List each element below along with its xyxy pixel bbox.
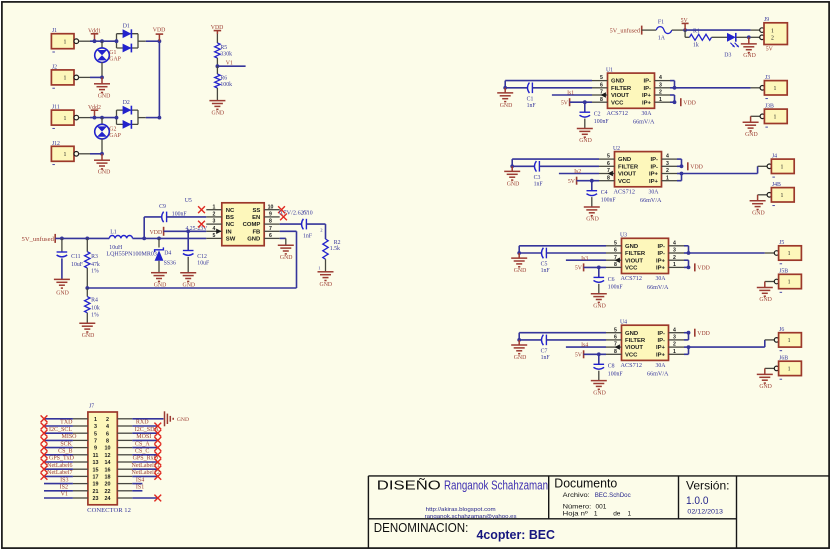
svg-text:7: 7	[269, 226, 272, 232]
svg-text:GND: GND	[212, 110, 225, 116]
svg-text:4: 4	[673, 327, 676, 333]
svg-text:J2: J2	[52, 64, 57, 70]
svg-text:U2: U2	[613, 146, 620, 152]
svg-text:1: 1	[788, 280, 791, 286]
svg-text:VDD: VDD	[153, 28, 166, 34]
svg-text:IP-: IP-	[657, 244, 665, 250]
svg-text:GND: GND	[625, 244, 638, 250]
svg-text:2: 2	[673, 255, 676, 261]
svg-text:1: 1	[64, 76, 67, 82]
svg-text:COMP: COMP	[243, 222, 261, 228]
svg-text:C11: C11	[71, 254, 81, 260]
svg-text:24: 24	[105, 496, 111, 502]
svg-text:1: 1	[673, 349, 676, 355]
svg-text:U3: U3	[620, 233, 627, 239]
svg-text:30A: 30A	[649, 189, 660, 195]
svg-text:R5: R5	[220, 45, 227, 51]
svg-text:4: 4	[673, 240, 676, 246]
svg-text:I2C_SCL: I2C_SCL	[49, 427, 72, 433]
svg-text:47k: 47k	[91, 262, 100, 268]
svg-text:18: 18	[105, 475, 111, 481]
svg-text:9: 9	[269, 212, 272, 218]
svg-text:VCC: VCC	[625, 352, 638, 358]
svg-text:10uF: 10uF	[71, 262, 84, 268]
svg-text:GND: GND	[752, 211, 765, 217]
svg-text:GPS_TxD: GPS_TxD	[49, 456, 75, 462]
svg-text:NetLabel12: NetLabel12	[132, 470, 160, 476]
svg-text:EN: EN	[252, 215, 260, 221]
svg-text:GND: GND	[579, 138, 592, 144]
svg-text:6: 6	[614, 335, 617, 341]
svg-text:IP-: IP-	[657, 251, 665, 257]
svg-text:VDD: VDD	[150, 230, 163, 236]
svg-text:FILTER: FILTER	[625, 338, 646, 344]
svg-text:1A: 1A	[658, 36, 666, 42]
svg-text:IP+: IP+	[656, 345, 666, 351]
svg-text:D4: D4	[164, 251, 171, 257]
svg-text:GND: GND	[586, 217, 599, 223]
svg-text:GND: GND	[759, 297, 772, 303]
svg-text:CS_C: CS_C	[135, 449, 149, 455]
svg-text:5: 5	[213, 233, 216, 239]
svg-text:MOSI: MOSI	[136, 434, 151, 440]
svg-text:5: 5	[607, 154, 610, 160]
svg-text:11: 11	[93, 453, 99, 459]
svg-text:8: 8	[269, 219, 272, 225]
svg-text:G2: G2	[109, 127, 116, 133]
svg-text:100nF: 100nF	[601, 198, 617, 204]
svg-text:ACS712: ACS712	[607, 111, 629, 117]
svg-text:GND: GND	[593, 303, 606, 309]
svg-text:1: 1	[771, 28, 774, 34]
svg-text:10: 10	[105, 446, 111, 452]
svg-text:C1: C1	[527, 97, 534, 103]
svg-text:Is3: Is3	[581, 256, 588, 262]
svg-text:8: 8	[600, 97, 603, 103]
svg-text:Número:: Número:	[563, 503, 592, 510]
svg-text:J6: J6	[779, 327, 784, 333]
svg-text:VDD: VDD	[697, 331, 710, 337]
svg-text:GND: GND	[759, 384, 772, 390]
svg-text:100nF: 100nF	[172, 212, 188, 218]
svg-text:V1: V1	[226, 61, 233, 67]
svg-text:7: 7	[94, 439, 97, 445]
svg-text:IP+: IP+	[656, 352, 666, 358]
svg-text:100k: 100k	[220, 82, 232, 88]
svg-text:U5: U5	[185, 198, 192, 204]
svg-text:5: 5	[614, 240, 617, 246]
svg-text:Hoja nº: Hoja nº	[563, 511, 589, 518]
svg-text:SCK: SCK	[60, 441, 72, 447]
svg-text:1nF: 1nF	[541, 268, 551, 274]
svg-text:GND: GND	[625, 331, 638, 337]
svg-text:10: 10	[268, 204, 274, 210]
svg-text:C5: C5	[541, 262, 548, 268]
svg-text:Archivo:: Archivo:	[563, 492, 590, 499]
svg-text:10uH: 10uH	[109, 245, 123, 251]
svg-text:VCC: VCC	[618, 179, 631, 185]
svg-text:17: 17	[93, 475, 99, 481]
svg-text:J1: J1	[52, 28, 57, 34]
svg-text:66mV/A: 66mV/A	[633, 120, 655, 126]
svg-text:4: 4	[213, 226, 216, 232]
svg-text:FILTER: FILTER	[618, 164, 639, 170]
svg-text:GND: GND	[500, 103, 513, 109]
svg-text:GND: GND	[247, 237, 260, 243]
svg-text:C9: C9	[159, 204, 166, 210]
svg-text:J12: J12	[52, 141, 60, 147]
svg-text:1%: 1%	[91, 269, 99, 275]
svg-text:CS_A: CS_A	[135, 441, 150, 447]
svg-text:IS3: IS3	[60, 477, 68, 483]
svg-text:NetLabel7: NetLabel7	[47, 470, 72, 476]
svg-text:6: 6	[614, 248, 617, 254]
svg-text:5V: 5V	[561, 101, 569, 107]
svg-text:J7: J7	[89, 404, 94, 410]
svg-text:TXD: TXD	[60, 420, 73, 426]
svg-text:NC: NC	[226, 222, 235, 228]
svg-text:DISEÑO: DISEÑO	[377, 477, 441, 492]
svg-text:CONECTOR 12: CONECTOR 12	[87, 508, 131, 514]
svg-text:IP-: IP-	[657, 331, 665, 337]
svg-text:CS_B: CS_B	[58, 449, 72, 455]
svg-text:1: 1	[666, 175, 669, 181]
svg-text:1: 1	[594, 511, 598, 518]
svg-text:1%: 1%	[91, 313, 99, 319]
svg-text:100nF: 100nF	[608, 371, 624, 377]
svg-text:IP+: IP+	[656, 266, 666, 272]
svg-text:02/12/2013: 02/12/2013	[687, 509, 723, 516]
svg-text:Is4: Is4	[581, 343, 588, 349]
svg-text:15: 15	[93, 467, 99, 473]
svg-text:2: 2	[666, 168, 669, 174]
svg-text:BEC.SchDoc: BEC.SchDoc	[595, 492, 632, 499]
svg-text:VCC: VCC	[625, 266, 638, 272]
svg-text:1: 1	[64, 152, 67, 158]
svg-text:U1: U1	[606, 67, 613, 73]
svg-text:2: 2	[213, 212, 216, 218]
svg-text:GND: GND	[593, 390, 606, 396]
svg-text:10uF: 10uF	[197, 261, 210, 267]
svg-text:VDD: VDD	[690, 165, 703, 171]
svg-text:GND: GND	[745, 132, 758, 138]
svg-text:1: 1	[94, 417, 97, 423]
svg-text:Is2: Is2	[574, 169, 581, 175]
svg-text:66mV/A: 66mV/A	[647, 285, 669, 291]
svg-text:4: 4	[666, 154, 669, 160]
svg-text:GAP: GAP	[109, 57, 121, 63]
svg-text:D3: D3	[724, 53, 731, 59]
svg-text:C6: C6	[608, 277, 615, 283]
svg-text:6: 6	[269, 233, 272, 239]
svg-text:VDD: VDD	[683, 101, 696, 107]
svg-text:3: 3	[666, 161, 669, 167]
svg-text:IP+: IP+	[656, 258, 666, 264]
svg-text:J3B: J3B	[765, 103, 774, 109]
svg-text:GND: GND	[280, 255, 293, 261]
svg-text:16: 16	[105, 467, 111, 473]
svg-text:C4: C4	[601, 190, 608, 196]
svg-text:1: 1	[628, 511, 632, 518]
svg-text:IS2: IS2	[60, 485, 68, 491]
svg-text:BS: BS	[226, 215, 234, 221]
svg-text:2: 2	[771, 36, 774, 42]
svg-text:IP-: IP-	[650, 157, 658, 163]
svg-text:1: 1	[64, 116, 67, 122]
svg-text:1nF: 1nF	[527, 103, 537, 109]
svg-text:J4B: J4B	[772, 182, 781, 188]
svg-text:13: 13	[93, 460, 99, 466]
svg-text:5V_unfused: 5V_unfused	[610, 28, 640, 35]
svg-text:J6B: J6B	[779, 355, 788, 361]
svg-text:1.5k: 1.5k	[330, 246, 340, 252]
svg-text:VIOUT: VIOUT	[618, 172, 636, 178]
svg-text:GND: GND	[82, 333, 95, 339]
svg-text:RXD: RXD	[136, 420, 149, 426]
svg-text:SS: SS	[252, 208, 260, 214]
svg-text:J11: J11	[52, 105, 60, 111]
svg-text:GND: GND	[320, 282, 333, 288]
svg-text:GND: GND	[98, 93, 111, 99]
svg-text:DENOMINACION:: DENOMINACION:	[374, 520, 469, 535]
svg-text:20: 20	[105, 482, 111, 488]
svg-text:IN: IN	[226, 229, 232, 235]
svg-text:1nF: 1nF	[534, 181, 544, 187]
svg-text:30A: 30A	[656, 276, 667, 282]
svg-text:6: 6	[600, 82, 603, 88]
svg-text:5: 5	[600, 75, 603, 81]
svg-text:22: 22	[105, 489, 111, 495]
svg-text:12: 12	[105, 453, 111, 459]
svg-text:VCC: VCC	[611, 100, 624, 106]
svg-text:14: 14	[105, 460, 111, 466]
svg-text:4: 4	[106, 424, 109, 430]
svg-text:1k: 1k	[693, 43, 699, 49]
svg-text:GND: GND	[177, 417, 189, 423]
svg-text:3: 3	[673, 248, 676, 254]
svg-text:1: 1	[659, 97, 662, 103]
svg-text:ACS712: ACS712	[621, 276, 643, 282]
svg-text:1: 1	[773, 86, 776, 92]
svg-text:NetLabel6: NetLabel6	[47, 463, 72, 469]
svg-text:6: 6	[106, 431, 109, 437]
svg-text:3: 3	[213, 219, 216, 225]
svg-text:GND: GND	[514, 355, 527, 361]
svg-text:NC: NC	[226, 208, 235, 214]
svg-text:Ranganok Schahzaman: Ranganok Schahzaman	[444, 477, 548, 492]
svg-text:GND: GND	[618, 157, 631, 163]
svg-text:100nF: 100nF	[608, 284, 624, 290]
svg-text:IS1: IS1	[136, 485, 144, 491]
svg-text:Documento: Documento	[554, 477, 617, 491]
svg-text:21: 21	[93, 489, 99, 495]
svg-text:5V: 5V	[575, 266, 583, 272]
svg-text:1: 1	[780, 193, 783, 199]
svg-text:8: 8	[607, 175, 610, 181]
svg-text:Versión:: Versión:	[686, 479, 730, 493]
svg-text:1nF: 1nF	[303, 234, 313, 240]
svg-text:FILTER: FILTER	[611, 86, 632, 92]
svg-text:IP+: IP+	[649, 172, 659, 178]
svg-text:R3: R3	[91, 254, 98, 260]
svg-text:R6: R6	[220, 76, 227, 82]
svg-text:J5: J5	[779, 240, 784, 246]
svg-text:3: 3	[673, 335, 676, 341]
svg-text:G1: G1	[109, 50, 116, 56]
svg-text:5V: 5V	[568, 179, 576, 185]
svg-text:2: 2	[659, 90, 662, 96]
svg-text:8: 8	[106, 439, 109, 445]
svg-text:5V: 5V	[575, 353, 583, 359]
svg-text:IP-: IP-	[657, 338, 665, 344]
svg-text:1: 1	[64, 39, 67, 45]
svg-text:100nF: 100nF	[594, 119, 610, 125]
svg-text:GND: GND	[611, 79, 624, 85]
svg-text:66mV/A: 66mV/A	[640, 198, 662, 204]
svg-text:SW: SW	[226, 237, 236, 243]
svg-text:3: 3	[659, 82, 662, 88]
svg-text:IP-: IP-	[650, 164, 658, 170]
svg-text:GND: GND	[743, 53, 756, 59]
svg-text:IP+: IP+	[642, 93, 652, 99]
svg-text:VIOUT: VIOUT	[611, 93, 629, 99]
svg-text:GND: GND	[98, 170, 111, 176]
svg-text:VDD: VDD	[697, 266, 710, 272]
svg-text:J9: J9	[764, 17, 769, 23]
svg-text:SS36: SS36	[164, 261, 176, 267]
svg-text:2: 2	[106, 417, 109, 423]
svg-text:1: 1	[788, 338, 791, 344]
svg-text:8: 8	[614, 262, 617, 268]
svg-text:1: 1	[213, 204, 216, 210]
svg-text:FB: FB	[252, 229, 260, 235]
svg-text:4copter: BEC: 4copter: BEC	[477, 528, 556, 542]
svg-text:C12: C12	[197, 254, 207, 260]
svg-text:1: 1	[773, 115, 776, 121]
svg-text:MISO: MISO	[61, 434, 77, 440]
svg-text:6: 6	[607, 161, 610, 167]
svg-text:19: 19	[93, 482, 99, 488]
svg-text:30A: 30A	[642, 111, 653, 117]
svg-text:3: 3	[94, 424, 97, 430]
svg-text:66mV/A: 66mV/A	[647, 372, 669, 378]
svg-text:8: 8	[614, 349, 617, 355]
svg-text:5V: 5V	[766, 47, 774, 53]
svg-text:GND: GND	[514, 268, 527, 274]
svg-text:J4: J4	[772, 153, 777, 159]
svg-text:IP-: IP-	[643, 86, 651, 92]
svg-text:GAP: GAP	[109, 133, 121, 139]
svg-text:GND: GND	[56, 291, 69, 297]
svg-text:J3: J3	[765, 75, 770, 81]
svg-text:de: de	[613, 511, 621, 518]
svg-text:R1: R1	[693, 29, 700, 35]
svg-text:1: 1	[788, 251, 791, 257]
svg-text:F1: F1	[658, 20, 664, 26]
svg-text:IS4: IS4	[136, 477, 144, 483]
svg-text:C10: C10	[303, 211, 313, 217]
svg-text:1nF: 1nF	[541, 355, 551, 361]
svg-text:5V_unfused: 5V_unfused	[22, 236, 55, 243]
svg-text:9: 9	[94, 446, 97, 452]
svg-text:C8: C8	[608, 364, 615, 370]
svg-text:10k: 10k	[91, 305, 100, 311]
svg-text:1: 1	[780, 165, 783, 171]
svg-text:C3: C3	[534, 175, 541, 181]
svg-text:J5B: J5B	[779, 269, 788, 275]
svg-text:V1: V1	[61, 492, 68, 498]
svg-text:330k: 330k	[220, 51, 232, 57]
svg-text:IP+: IP+	[642, 100, 652, 106]
svg-text:VIOUT: VIOUT	[625, 258, 643, 264]
svg-text:Is1: Is1	[567, 91, 574, 97]
svg-text:5: 5	[94, 431, 97, 437]
svg-text:D1: D1	[123, 24, 130, 30]
svg-text:FILTER: FILTER	[625, 251, 646, 257]
svg-text:C2: C2	[594, 112, 601, 118]
svg-text:1: 1	[673, 262, 676, 268]
svg-text:L1: L1	[110, 230, 117, 236]
svg-text:VIOUT: VIOUT	[625, 345, 643, 351]
svg-text:GND: GND	[507, 181, 520, 187]
svg-text:5: 5	[614, 327, 617, 333]
svg-text:R4: R4	[91, 297, 98, 303]
svg-text:D2: D2	[123, 100, 130, 106]
svg-text:1: 1	[788, 367, 791, 373]
svg-text:30A: 30A	[656, 363, 667, 369]
svg-text:1.0.0: 1.0.0	[686, 495, 709, 507]
svg-text:001: 001	[596, 503, 607, 510]
svg-text:ACS712: ACS712	[614, 189, 636, 195]
svg-text:http://akiras.blogspot.com: http://akiras.blogspot.com	[426, 507, 496, 513]
svg-text:LQH55PN100MR03: LQH55PN100MR03	[106, 252, 157, 258]
svg-text:IP+: IP+	[649, 179, 659, 185]
svg-text:C7: C7	[541, 349, 548, 355]
svg-text:4: 4	[659, 75, 662, 81]
svg-text:ACS712: ACS712	[621, 363, 643, 369]
svg-text:2: 2	[673, 342, 676, 348]
svg-text:IP-: IP-	[643, 79, 651, 85]
svg-text:23: 23	[93, 496, 99, 502]
svg-text:U4: U4	[620, 319, 627, 325]
